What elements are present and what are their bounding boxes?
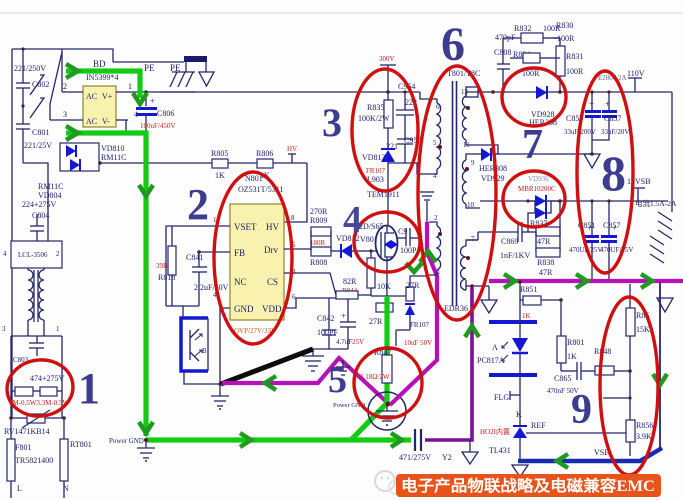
green path through R847	[351, 296, 387, 440]
top faint rule	[0, 12, 683, 14]
svg-text:7: 7	[522, 122, 543, 168]
wire lower box	[2, 325, 62, 418]
resistor R835	[358, 92, 393, 148]
svg-text:1: 1	[437, 268, 441, 276]
optocoupler U2 transistor side	[181, 318, 208, 371]
svg-text:R805: R805	[211, 149, 228, 158]
diode VD813	[362, 149, 405, 226]
svg-text:3: 3	[322, 100, 342, 145]
resistor R855 15K	[626, 284, 650, 420]
svg-text:TR5821400: TR5821400	[15, 456, 53, 465]
green arrow bus1	[504, 274, 515, 288]
svg-text:R856: R856	[636, 421, 653, 430]
transformer common-mode choke windings	[28, 268, 44, 330]
bridge BD IN5399*4	[63, 59, 138, 127]
svg-text:+: +	[150, 96, 155, 106]
svg-text:100P: 100P	[400, 246, 417, 255]
primary winding upper	[429, 99, 442, 180]
svg-text:270R: 270R	[310, 207, 328, 216]
ground in circle	[376, 404, 398, 426]
green arrow	[139, 185, 153, 196]
svg-text:R831: R831	[566, 52, 583, 61]
ellipse 7	[502, 68, 566, 126]
svg-text:10: 10	[467, 201, 475, 209]
svg-text:27R: 27R	[406, 281, 420, 290]
wire R809/R808 verticals	[311, 231, 340, 251]
ground above pin2	[420, 192, 434, 222]
node	[218, 382, 222, 386]
svg-text:33uF/20V: 33uF/20V	[601, 128, 629, 136]
svg-text:180R: 180R	[310, 239, 326, 247]
varistor RM11C upper	[30, 75, 44, 118]
node	[197, 250, 201, 254]
svg-text:VSET: VSET	[234, 222, 257, 232]
green arrow bus3	[641, 274, 652, 288]
secondary winding top	[461, 87, 478, 149]
varistor RV1	[4, 410, 66, 436]
resistor RT801	[60, 418, 92, 498]
magenta riser to transformer	[390, 222, 437, 405]
svg-text:VDD: VDD	[262, 304, 282, 314]
banner	[396, 474, 661, 497]
svg-text:2: 2	[187, 180, 209, 229]
secondary winding bottom	[461, 235, 479, 290]
diode MBR upper	[518, 175, 556, 207]
wire	[23, 163, 48, 241]
svg-text:1K: 1K	[567, 352, 577, 361]
svg-text:RT801: RT801	[70, 440, 92, 449]
svg-text:HER308: HER308	[479, 164, 507, 173]
node	[21, 47, 24, 50]
svg-text:100K/2W: 100K/2W	[358, 114, 390, 123]
svg-text:R830: R830	[556, 21, 573, 30]
optocoupler PC817A	[477, 300, 537, 394]
resistor R832	[503, 24, 561, 43]
transistor Q1 MOSFET V801	[359, 222, 398, 261]
wire bridge pin3	[50, 119, 83, 121]
earth triangle right	[657, 298, 673, 312]
diode FR107 lower	[396, 304, 432, 347]
green arrow purple	[465, 326, 479, 337]
green arrow blue	[557, 454, 568, 468]
green arrow on magenta	[265, 376, 276, 390]
wire source to sense	[387, 261, 410, 296]
capacitor C845 4.7uF	[336, 298, 364, 349]
ground	[211, 384, 229, 410]
svg-text:5: 5	[433, 139, 437, 147]
earth triangle TL431	[512, 465, 528, 477]
110V tick	[627, 69, 645, 92]
svg-text:FLG: FLG	[494, 393, 509, 402]
svg-text:VD804: VD804	[38, 191, 62, 200]
node	[21, 104, 24, 107]
svg-text:N801: N801	[245, 174, 263, 183]
wire right vertical	[659, 283, 661, 449]
resistor R856 3.9K	[594, 420, 653, 457]
capacitor C955	[386, 136, 421, 163]
resistor R809	[310, 207, 331, 236]
connector hatch	[650, 212, 672, 263]
svg-text:9: 9	[571, 387, 592, 433]
svg-text:4: 4	[343, 199, 362, 241]
HV tick	[287, 145, 297, 163]
ellipse 9	[600, 297, 658, 475]
svg-text:TL431: TL431	[489, 446, 511, 455]
300V tick	[379, 55, 396, 92]
svg-text:1K: 1K	[522, 312, 531, 320]
resistor R831	[553, 38, 584, 94]
ground	[137, 440, 155, 462]
resistor R847	[360, 348, 392, 383]
magenta wire bottom left	[222, 358, 390, 405]
svg-text:R809: R809	[310, 216, 327, 225]
svg-text:27R: 27R	[369, 317, 383, 326]
svg-text:CS: CS	[267, 277, 278, 287]
ellipse 4	[354, 212, 420, 272]
svg-text:100R: 100R	[566, 67, 584, 76]
green arrow bus2	[576, 274, 587, 288]
svg-text:N: N	[63, 484, 69, 493]
green arrow	[391, 433, 402, 447]
resistor R801	[557, 300, 584, 371]
svg-text:VD929: VD929	[481, 174, 505, 183]
green arrow on magenta low	[406, 263, 422, 272]
snubber cap 470pF	[494, 33, 516, 94]
wire	[12, 49, 113, 62]
capacitor C806	[136, 92, 175, 133]
svg-text:+: +	[341, 311, 346, 321]
svg-text:3M-0.5W3.3M-0.5W: 3M-0.5W3.3M-0.5W	[9, 399, 69, 407]
green arrow	[66, 64, 78, 78]
wire 110V rail	[478, 91, 672, 93]
ellipse 2	[214, 172, 292, 344]
green arrow	[139, 422, 153, 433]
magenta ground bus	[489, 279, 683, 283]
svg-text:Power GND: Power GND	[109, 437, 144, 445]
TL431	[480, 394, 630, 459]
resistor R844 82R	[336, 277, 371, 299]
wire diode pack to rail	[125, 120, 127, 133]
wire opto emitter	[184, 372, 220, 384]
svg-text:HO2I内置: HO2I内置	[480, 427, 510, 436]
resistor R806	[228, 149, 307, 180]
diode VD812	[336, 234, 364, 258]
svg-text:电流1.5A-2A: 电流1.5A-2A	[635, 198, 677, 208]
svg-text:HV: HV	[266, 222, 279, 232]
svg-text:3.9K: 3.9K	[636, 432, 652, 441]
wire pin11 step	[478, 145, 498, 154]
svg-text:1nF/1KV: 1nF/1KV	[500, 251, 530, 260]
diode MBR lower	[526, 199, 560, 232]
svg-text:R801: R801	[567, 338, 584, 347]
wire opto collector	[182, 306, 184, 318]
clamp 27R vertical	[406, 276, 429, 301]
diode pack VD810 RM11C	[38, 143, 127, 200]
wire pin7 to C869	[466, 239, 478, 241]
resistor R818	[156, 226, 176, 306]
wire main HV rail	[160, 91, 420, 93]
svg-text:0.18Ω/2W: 0.18Ω/2W	[360, 373, 390, 381]
svg-text:Y2: Y2	[442, 453, 452, 462]
wire VDD pin6	[284, 298, 345, 308]
svg-text:FB: FB	[234, 248, 245, 258]
wire green lower	[66, 133, 146, 436]
green arrow up on magenta	[420, 251, 436, 262]
svg-text:471/275V: 471/275V	[399, 453, 431, 462]
svg-text:VD936: VD936	[528, 175, 549, 183]
resistor R830	[553, 21, 575, 43]
wire	[11, 49, 13, 418]
wire Drv pin5	[284, 248, 311, 250]
svg-text:R818: R818	[158, 273, 175, 282]
svg-text:12VSB: 12VSB	[627, 177, 651, 186]
svg-text:电子产品物联战略及电磁兼容EMC: 电子产品物联战略及电磁兼容EMC	[401, 476, 655, 495]
svg-text:NC: NC	[234, 277, 247, 287]
svg-text:100uF/450V: 100uF/450V	[140, 122, 175, 130]
svg-text:IN5399*4: IN5399*4	[86, 73, 118, 82]
ellipse 1	[4, 356, 76, 420]
purple wire	[425, 287, 472, 440]
wire FB bottom bus	[166, 305, 199, 307]
primary winding lower	[429, 214, 442, 276]
svg-text:AC: AC	[86, 117, 97, 126]
wire FB pin2	[199, 251, 230, 253]
node power gnd	[144, 438, 148, 442]
svg-text:R808: R808	[310, 258, 327, 267]
wire	[61, 49, 63, 92]
svg-text:HV: HV	[287, 145, 297, 153]
capacitor C857	[592, 90, 629, 140]
svg-text:R838: R838	[537, 258, 554, 267]
svg-text:4: 4	[433, 172, 437, 180]
wire GND pin4 down	[220, 308, 230, 384]
capacitor C801	[16, 106, 52, 163]
capacitor C851	[569, 199, 602, 281]
svg-text:4.7uF: 4.7uF	[336, 338, 352, 346]
svg-text:C842: C842	[317, 314, 334, 323]
svg-text:MBR10200C: MBR10200C	[518, 185, 556, 193]
svg-text:12: 12	[461, 88, 469, 96]
wire	[49, 104, 51, 120]
svg-text:3: 3	[63, 110, 67, 119]
svg-text:1: 1	[56, 325, 60, 333]
ground small c845	[336, 360, 350, 375]
wire green bottom bus	[146, 437, 404, 442]
svg-text:2.2uF/50V: 2.2uF/50V	[194, 283, 229, 292]
wire VSET pin1	[172, 225, 230, 227]
thick black wire	[221, 349, 313, 384]
wire vset left drop	[166, 226, 172, 306]
svg-text:FR107: FR107	[366, 167, 386, 175]
svg-text:C869: C869	[501, 237, 518, 246]
green arrow	[66, 126, 78, 140]
capacitor C9 100P	[398, 227, 420, 255]
capacitor Y2 471/275V	[399, 429, 452, 462]
capacitor C852	[600, 199, 633, 281]
wire HV to pin8	[284, 163, 307, 222]
filter LCL-3506	[3, 241, 62, 268]
svg-text:REF: REF	[531, 421, 546, 430]
FLG tick	[494, 391, 520, 402]
ellipse 5	[354, 348, 422, 418]
op-amp U1 IC N801 OZ531T	[213, 174, 296, 335]
capacitor C803	[13, 336, 44, 364]
chassis ground PE	[170, 62, 195, 87]
thick blue return	[518, 448, 662, 461]
green arrow	[240, 433, 251, 447]
svg-text:V801: V801	[360, 235, 378, 244]
svg-text:221/25V: 221/25V	[24, 141, 52, 150]
svg-text:Drv: Drv	[264, 245, 278, 255]
resistor R838	[536, 248, 560, 277]
svg-text:C865: C865	[554, 374, 571, 383]
capacitor C802	[14, 49, 49, 106]
svg-text:R832: R832	[514, 24, 531, 33]
svg-text:F801: F801	[15, 443, 31, 452]
svg-text:C806: C806	[157, 109, 174, 118]
earth triangle secondary	[584, 152, 600, 168]
svg-text:6: 6	[441, 18, 465, 71]
resistors 3M-0.5W series	[9, 374, 69, 418]
svg-text:47R: 47R	[537, 237, 551, 246]
svg-text:3: 3	[2, 325, 6, 333]
wechat watermark	[375, 471, 403, 494]
ellipse MBR	[503, 171, 565, 227]
svg-text:474+275V: 474+275V	[30, 374, 65, 383]
svg-text:470UF/25V: 470UF/25V	[600, 246, 633, 254]
resistor R851	[518, 280, 563, 320]
resistor 27R horizontal	[369, 303, 393, 326]
capacitor C869	[478, 222, 536, 260]
wire bridge pin4	[116, 119, 128, 121]
svg-text:8: 8	[291, 214, 295, 222]
wire bridge pin2	[62, 91, 83, 93]
svg-text:8: 8	[601, 145, 626, 201]
svg-text:VD810: VD810	[101, 144, 125, 153]
diode VD929 HER308	[478, 148, 592, 183]
svg-text:L: L	[17, 484, 22, 493]
ellipse 6	[418, 66, 496, 320]
earth triangle PE	[199, 62, 214, 86]
earth triangle y2	[462, 440, 478, 464]
svg-text:221/250V: 221/250V	[14, 64, 46, 73]
node circle	[368, 392, 406, 430]
svg-text:10uF 50V: 10uF 50V	[404, 339, 432, 347]
diode VD928	[529, 86, 557, 127]
capacitor C804	[22, 200, 57, 241]
svg-text:10K: 10K	[377, 282, 391, 291]
svg-text:6: 6	[436, 103, 440, 111]
wire stub	[603, 396, 632, 399]
svg-text:RM11C: RM11C	[101, 153, 127, 162]
ellipse 8	[577, 71, 633, 273]
capacitor C859	[564, 90, 601, 154]
12VSB tick	[627, 177, 677, 208]
wire cap bottoms	[313, 348, 348, 350]
svg-text:PE: PE	[144, 63, 155, 73]
svg-text:R806: R806	[256, 149, 273, 158]
resistor R845 10K	[367, 249, 391, 296]
svg-text:LCL-3506: LCL-3506	[18, 251, 48, 259]
svg-text:7: 7	[471, 235, 475, 243]
svg-text:AC: AC	[86, 92, 97, 101]
svg-text:1K: 1K	[215, 171, 225, 180]
green arrow down right	[653, 374, 667, 385]
svg-text:2: 2	[63, 82, 67, 91]
svg-text:1: 1	[78, 364, 100, 413]
wire pin7 return	[466, 280, 489, 288]
svg-text:5: 5	[328, 359, 347, 401]
node	[386, 402, 391, 407]
wire rail to pin6	[420, 92, 429, 99]
svg-text:C857: C857	[604, 114, 621, 123]
svg-text:R835: R835	[367, 103, 384, 112]
capacitor C841	[186, 252, 229, 306]
wire 12V rail	[480, 200, 668, 202]
svg-text:C857: C857	[603, 221, 620, 230]
svg-text:1: 1	[128, 82, 132, 91]
svg-text:15K: 15K	[636, 325, 650, 334]
svg-text:9: 9	[471, 159, 475, 167]
resistor R837	[530, 199, 562, 252]
svg-text:300V: 300V	[379, 55, 395, 63]
svg-text:V+: V+	[102, 92, 113, 101]
resistor R848	[594, 347, 632, 375]
wire pin4 stub	[405, 163, 429, 174]
svg-text:110V: 110V	[627, 69, 645, 78]
svg-text:EDR36: EDR36	[444, 304, 468, 313]
PE bar	[184, 56, 207, 62]
svg-text:C804: C804	[32, 211, 49, 220]
capacitor C954	[396, 82, 417, 139]
svg-text:R851: R851	[520, 285, 537, 294]
wire right edge down	[671, 92, 673, 212]
wire green top	[66, 71, 140, 98]
resistor R808	[310, 239, 331, 267]
svg-text:C801: C801	[32, 128, 49, 137]
green arrow	[133, 93, 147, 104]
svg-text:B: B	[202, 347, 207, 355]
wire bridge pin1	[116, 91, 195, 93]
wire top rail to PE	[113, 61, 184, 63]
wire rail to R805	[98, 161, 102, 165]
svg-text:2: 2	[56, 250, 60, 258]
fuse F801	[7, 418, 53, 498]
secondary winding middle	[462, 154, 480, 209]
node	[491, 90, 495, 94]
node	[144, 90, 148, 94]
svg-text:K: K	[516, 410, 522, 419]
svg-text:GND: GND	[234, 304, 254, 314]
wire CS pin3	[284, 273, 336, 295]
node	[386, 90, 390, 94]
capacitor C842	[317, 298, 338, 349]
transformer core	[444, 69, 480, 313]
ellipse 3	[352, 69, 418, 191]
svg-text:2: 2	[434, 214, 438, 222]
svg-text:47R: 47R	[539, 268, 553, 277]
resistor R805	[100, 149, 228, 180]
capacitor C865	[547, 362, 595, 395]
earth triangle below bus	[481, 286, 497, 313]
svg-text:FR107: FR107	[410, 321, 430, 329]
resistor R834	[510, 50, 553, 78]
svg-text:V-: V-	[102, 117, 110, 126]
wire	[50, 52, 62, 104]
svg-text:224+275V: 224+275V	[22, 200, 57, 209]
svg-text:4: 4	[3, 250, 7, 258]
svg-text:RM11C: RM11C	[38, 182, 64, 191]
